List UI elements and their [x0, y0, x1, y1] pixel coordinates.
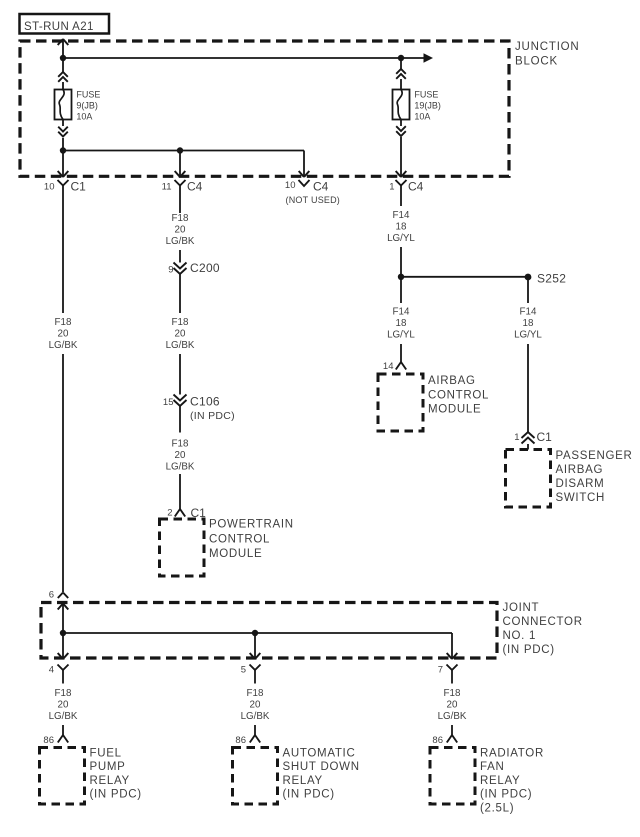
svg-text:11: 11	[162, 182, 172, 193]
svg-text:7: 7	[438, 665, 443, 676]
svg-text:JUNCTION: JUNCTION	[515, 41, 580, 53]
svg-text:RELAY: RELAY	[283, 775, 323, 787]
svg-text:1: 1	[514, 432, 519, 443]
svg-text:LG/BK: LG/BK	[166, 236, 195, 247]
svg-text:F18: F18	[55, 317, 72, 328]
svg-text:(IN PDC): (IN PDC)	[90, 789, 142, 801]
svg-text:C4: C4	[313, 180, 329, 194]
svg-text:SWITCH: SWITCH	[556, 492, 606, 504]
svg-text:(2.5L): (2.5L)	[480, 802, 514, 814]
svg-text:AUTOMATIC: AUTOMATIC	[283, 748, 356, 760]
svg-text:MODULE: MODULE	[209, 548, 262, 560]
svg-text:86: 86	[43, 735, 54, 746]
svg-text:F14: F14	[393, 210, 410, 221]
svg-text:6: 6	[49, 590, 54, 601]
svg-text:JOINT: JOINT	[503, 602, 540, 614]
svg-text:CONTROL: CONTROL	[428, 389, 489, 401]
svg-text:20: 20	[250, 700, 261, 711]
svg-text:LG/BK: LG/BK	[166, 340, 195, 351]
svg-text:LG/BK: LG/BK	[438, 711, 467, 722]
svg-text:F14: F14	[520, 307, 537, 318]
svg-text:5: 5	[241, 665, 246, 676]
svg-text:F18: F18	[172, 213, 189, 224]
svg-text:86: 86	[235, 735, 246, 746]
svg-text:(IN PDC): (IN PDC)	[190, 410, 235, 422]
svg-text:LG/BK: LG/BK	[166, 462, 195, 473]
svg-text:LG/BK: LG/BK	[241, 711, 270, 722]
svg-text:9: 9	[168, 265, 173, 276]
svg-text:AIRBAG: AIRBAG	[428, 375, 476, 387]
svg-text:POWERTRAIN: POWERTRAIN	[209, 519, 294, 531]
svg-text:15: 15	[163, 397, 174, 408]
svg-text:20: 20	[175, 450, 186, 461]
svg-text:F18: F18	[444, 688, 461, 699]
svg-text:F18: F18	[172, 317, 189, 328]
svg-text:F18: F18	[55, 688, 72, 699]
svg-text:FUEL: FUEL	[90, 748, 122, 760]
svg-text:F14: F14	[393, 307, 410, 318]
svg-text:RADIATOR: RADIATOR	[480, 748, 544, 760]
svg-text:F18: F18	[172, 439, 189, 450]
svg-text:(NOT USED): (NOT USED)	[286, 195, 341, 205]
svg-text:LG/BK: LG/BK	[49, 340, 78, 351]
svg-text:BLOCK: BLOCK	[515, 56, 558, 68]
svg-text:20: 20	[175, 225, 186, 236]
svg-text:CONNECTOR: CONNECTOR	[503, 616, 583, 628]
svg-text:LG/BK: LG/BK	[49, 711, 78, 722]
svg-text:FAN: FAN	[480, 761, 504, 773]
svg-text:2: 2	[167, 508, 172, 519]
svg-text:LG/YL: LG/YL	[514, 330, 542, 341]
svg-text:1: 1	[389, 182, 394, 193]
svg-text:S252: S252	[537, 271, 566, 285]
svg-text:C1: C1	[71, 180, 87, 194]
svg-text:(IN PDC): (IN PDC)	[283, 789, 335, 801]
svg-text:9(JB): 9(JB)	[76, 101, 98, 111]
svg-text:LG/YL: LG/YL	[387, 233, 415, 244]
svg-text:PUMP: PUMP	[90, 761, 126, 773]
svg-text:18: 18	[396, 222, 407, 233]
svg-text:MODULE: MODULE	[428, 404, 481, 416]
svg-text:RELAY: RELAY	[90, 775, 130, 787]
svg-text:NO. 1: NO. 1	[503, 630, 537, 642]
svg-text:C200: C200	[190, 261, 220, 275]
svg-text:DISARM: DISARM	[556, 478, 605, 490]
svg-text:RELAY: RELAY	[480, 775, 520, 787]
svg-text:18: 18	[396, 318, 407, 329]
svg-text:19(JB): 19(JB)	[414, 101, 441, 111]
svg-text:AIRBAG: AIRBAG	[556, 464, 604, 476]
svg-text:20: 20	[447, 700, 458, 711]
svg-text:CONTROL: CONTROL	[209, 534, 270, 546]
svg-text:10A: 10A	[414, 112, 430, 122]
svg-text:C106: C106	[190, 395, 220, 409]
svg-text:20: 20	[58, 700, 69, 711]
svg-text:SHUT DOWN: SHUT DOWN	[283, 761, 360, 773]
svg-text:20: 20	[58, 329, 69, 340]
svg-text:10A: 10A	[76, 112, 92, 122]
svg-text:10: 10	[285, 180, 296, 191]
svg-text:(IN PDC): (IN PDC)	[503, 644, 555, 656]
svg-text:20: 20	[175, 329, 186, 340]
svg-text:C4: C4	[187, 180, 203, 194]
svg-text:4: 4	[49, 665, 54, 676]
svg-text:FUSE: FUSE	[414, 90, 438, 100]
svg-text:PASSENGER: PASSENGER	[556, 450, 633, 462]
svg-text:LG/YL: LG/YL	[387, 330, 415, 341]
svg-text:C4: C4	[408, 180, 424, 194]
svg-text:FUSE: FUSE	[76, 90, 100, 100]
svg-text:C1: C1	[537, 430, 553, 444]
svg-text:(IN PDC): (IN PDC)	[480, 789, 532, 801]
svg-text:10: 10	[44, 182, 55, 193]
svg-text:F18: F18	[247, 688, 264, 699]
svg-text:ST-RUN A21: ST-RUN A21	[24, 21, 94, 33]
svg-text:14: 14	[383, 361, 394, 372]
svg-text:86: 86	[432, 735, 443, 746]
svg-text:18: 18	[523, 318, 534, 329]
